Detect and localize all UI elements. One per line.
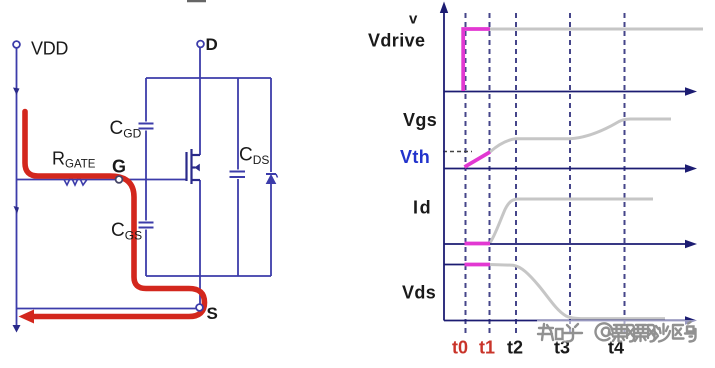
svg-text:Id: Id	[413, 198, 432, 218]
svg-text:Vth: Vth	[400, 147, 430, 167]
svg-text:t1: t1	[479, 338, 495, 358]
svg-text:VDD: VDD	[31, 39, 68, 59]
svg-text:G: G	[112, 157, 126, 177]
svg-text:S: S	[207, 304, 218, 323]
svg-text:Vds: Vds	[402, 283, 436, 303]
svg-text:t2: t2	[507, 338, 523, 358]
svg-text:D: D	[206, 35, 218, 54]
svg-text:v: v	[409, 11, 418, 28]
svg-text:t0: t0	[452, 338, 468, 358]
svg-text:Vgs: Vgs	[403, 110, 437, 130]
svg-text:Vdrive: Vdrive	[368, 31, 425, 51]
